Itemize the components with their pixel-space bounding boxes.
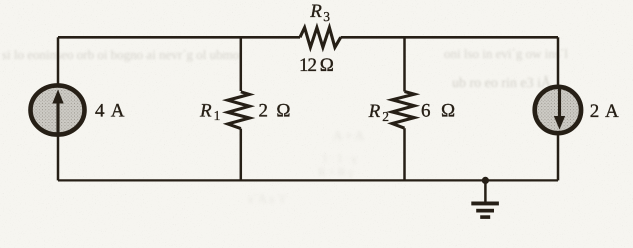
ground stub [484, 180, 487, 202]
resistor R3 zigzag [300, 28, 341, 48]
resistor R2 zigzag [392, 92, 414, 129]
svg-text:1: 1 [214, 108, 221, 123]
current source I2 circle [535, 87, 581, 133]
ground bar 3 [480, 215, 490, 219]
wire R2 branch lower [403, 128, 406, 180]
svg-text:4 A: 4 A [95, 101, 126, 122]
svg-text:R: R [368, 101, 381, 122]
ground bar 2 [476, 209, 494, 213]
svg-text:s´A s ′i′: s´A s ′i′ [248, 191, 287, 206]
wire bottom [58, 179, 558, 181]
svg-text:1 · 1 · γ: 1 · 1 · γ [322, 151, 358, 165]
svg-text:R: R [199, 101, 212, 122]
wire left branch upper [57, 37, 60, 86]
svg-text:2 Ω: 2 Ω [259, 101, 293, 122]
svg-text:R + R γ: R + R γ [318, 165, 354, 179]
wire left branch lower [57, 134, 60, 180]
svg-text:3: 3 [323, 9, 330, 24]
junction dot ground node [482, 177, 489, 184]
current source I1 arrow [56, 102, 59, 133]
wire R1 branch upper [240, 37, 243, 91]
wire top right segment [341, 36, 558, 39]
svg-text:R: R [309, 1, 322, 22]
wire R1 branch lower [240, 129, 243, 181]
svg-text:A + A: A + A [333, 128, 365, 143]
svg-text:oni lso in evi´g ow ins´l: oni lso in evi´g ow ins´l [444, 46, 568, 61]
ground bar 1 [471, 202, 499, 206]
svg-text:ub ro eo rin e3 iÅ: ub ro eo rin e3 iÅ [452, 75, 552, 91]
svg-text:2 A: 2 A [590, 101, 620, 122]
svg-text:si lo eoninseo orb oi bogno ai: si lo eoninseo orb oi bogno ai nevr´g ol… [2, 47, 239, 62]
current source I1 circle [31, 85, 85, 134]
svg-text:12 Ω: 12 Ω [299, 55, 334, 76]
current source I2 arrow [558, 89, 561, 117]
wire top left segment [58, 36, 300, 39]
wire R2 branch upper [403, 37, 406, 91]
wire right branch upper [557, 37, 560, 88]
svg-text:6 Ω: 6 Ω [421, 101, 458, 122]
resistor R1 zigzag [228, 92, 250, 129]
svg-text:2: 2 [382, 109, 389, 124]
wire right branch lower [557, 132, 560, 180]
